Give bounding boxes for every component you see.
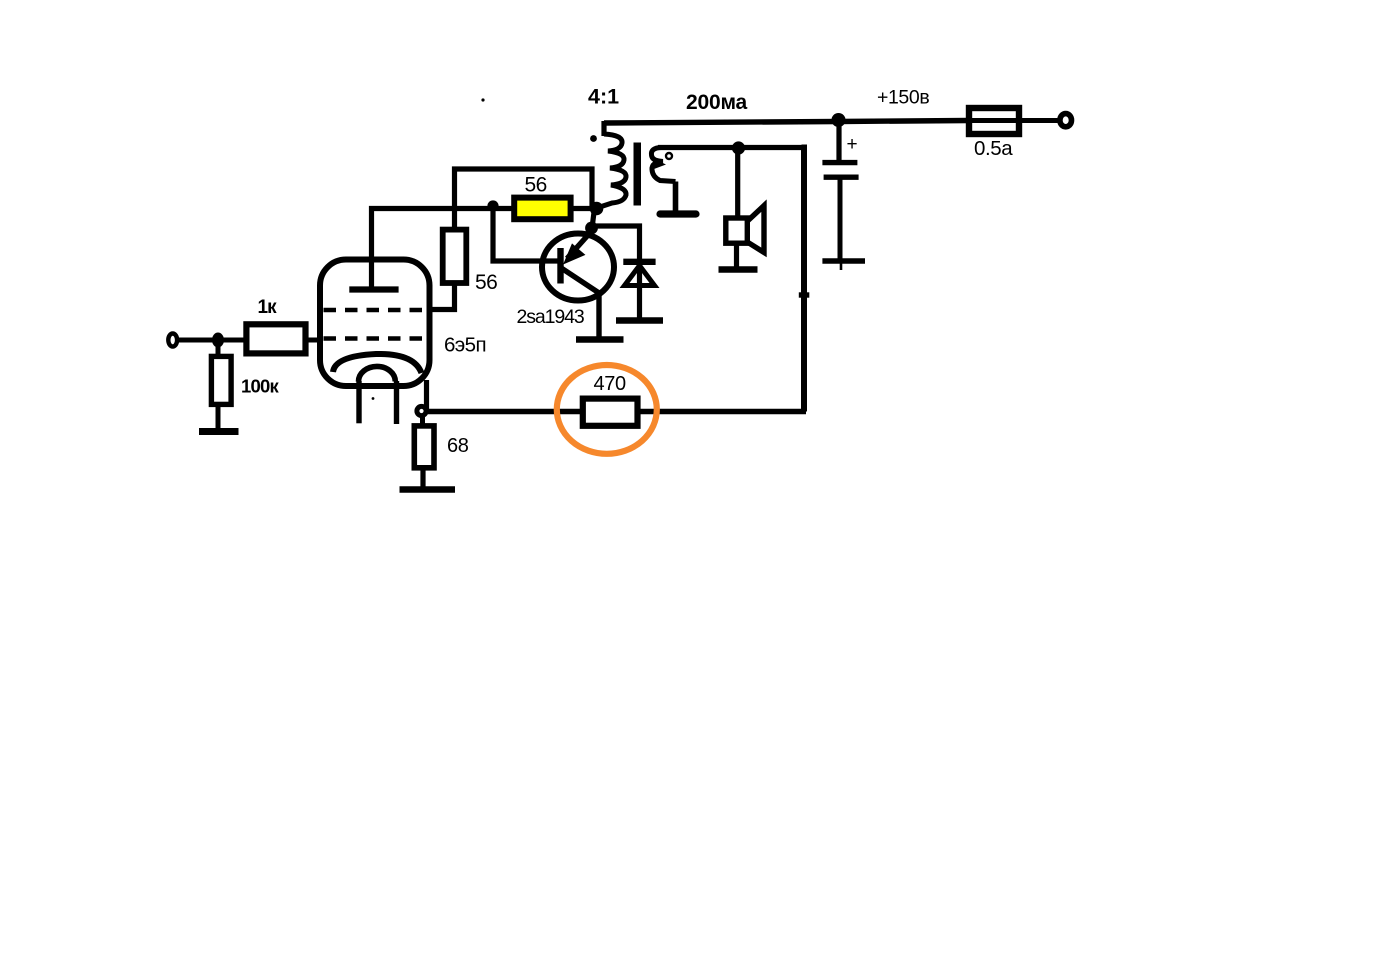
tube screen grid (dashed) (324, 308, 426, 313)
wire capacitor to ground (838, 177, 843, 261)
wire junction to capacitor (836, 121, 841, 161)
diode triangle (625, 266, 655, 286)
ground (below 100k) (199, 428, 239, 435)
value label 100к (241, 376, 279, 397)
tube heater arc (359, 366, 396, 381)
transistor 2sa1943 body (542, 234, 614, 301)
svg-text:4:1: 4:1 (588, 85, 619, 109)
transformer secondary label 4:1 (588, 85, 619, 109)
wire junction down to 100k (216, 340, 221, 357)
tube cathode arc (333, 354, 422, 373)
tube anode plate (349, 286, 398, 292)
wire speaker to ground (734, 243, 739, 267)
wire emitter node to diode (592, 226, 640, 259)
stray ring near secondary (666, 153, 672, 159)
svg-text:6э5п: 6э5п (444, 334, 486, 357)
wire through fuse (966, 118, 1058, 123)
svg-text:+: + (847, 134, 858, 155)
stray mark near primary (590, 135, 597, 142)
svg-text:56: 56 (475, 271, 497, 294)
diode cathode bar (623, 259, 655, 265)
svg-text:+150в: +150в (877, 87, 929, 109)
tube 6э5п envelope (320, 260, 430, 387)
fuse 0.5а (969, 108, 1019, 134)
transistor collector (562, 269, 599, 339)
ground (speaker) (719, 266, 758, 272)
transformer T1 secondary coil (651, 148, 675, 182)
tube label 6э5п (444, 334, 486, 357)
wire junction to 68 (420, 414, 425, 427)
tube control grid (dashed) (324, 336, 426, 341)
stray dot top (481, 98, 484, 101)
wire anode up and right to 56 yellow (372, 209, 515, 291)
node small blob on feedback wire (799, 292, 810, 297)
wire 56 top loop to transformer node (455, 169, 593, 230)
fuse label 0.5а (974, 137, 1013, 160)
transformer T1 core (634, 143, 642, 206)
transformer T1 primary top wire (604, 121, 969, 124)
wire down to speaker (735, 148, 740, 219)
wire 1k to tube grid (306, 338, 324, 343)
wire secondary bottom to ground (673, 182, 679, 213)
stray dot under tube (372, 397, 375, 400)
wire feedback vertical (802, 148, 805, 412)
transistor base bar (557, 248, 563, 284)
wire input to 1k (177, 338, 247, 343)
wire 100k to ground (216, 404, 221, 429)
wire cathode down to junction (424, 380, 429, 409)
value label 56 (yellow resistor) (525, 174, 547, 197)
ground (diode) (616, 317, 663, 323)
node input junction (212, 333, 224, 348)
wire base drop from junction (493, 208, 559, 261)
node cathode junction ring (417, 406, 426, 415)
output terminal (1060, 114, 1072, 127)
capacitor C1 (822, 163, 858, 178)
speaker LS1 (726, 206, 764, 253)
resistor 470 (583, 399, 638, 426)
resistor 56 (vertical) (443, 230, 467, 283)
transformer T1 primary coil (597, 134, 627, 208)
resistor 68 (414, 426, 434, 468)
current label 200ма (686, 91, 747, 114)
transformer T1 primary corner (601, 121, 606, 136)
ground (transistor collector) (576, 336, 624, 343)
svg-text:2sa1943: 2sa1943 (517, 306, 584, 328)
wire 470 to feedback vertical (638, 409, 807, 414)
ground (68) (400, 486, 456, 492)
svg-text:0.5а: 0.5а (974, 137, 1013, 160)
value label 56 (vertical resistor) (475, 271, 497, 294)
tube heater pin left (356, 381, 361, 423)
tube heater pin right (394, 381, 399, 424)
value label 68 (447, 435, 469, 457)
capacitor C1 plus label (847, 134, 858, 155)
node anode junction (487, 200, 498, 211)
diode lead through to ground (637, 265, 642, 318)
wire feedback horizontal left (426, 409, 583, 414)
svg-text:100к: 100к (241, 376, 279, 397)
transistor label 2sa1943 (517, 306, 584, 328)
supply label +150в (877, 87, 929, 109)
wire node to emitter node (592, 209, 595, 229)
wire secondary top (658, 145, 804, 150)
svg-text:200ма: 200ма (686, 91, 747, 114)
node B+ junction (832, 113, 846, 127)
node transformer primary bottom (590, 202, 604, 216)
svg-text:68: 68 (447, 435, 469, 457)
ground (secondary) (660, 210, 696, 217)
node speaker top (732, 141, 745, 154)
resistor 100к (211, 356, 231, 404)
highlight orange circle around 470 (557, 365, 657, 454)
wire tube screen to 56 resistor (429, 284, 455, 310)
value label 1к (258, 297, 278, 318)
ground (capacitor) (822, 261, 865, 270)
value label 470 (594, 373, 626, 395)
svg-text:470: 470 (594, 373, 626, 395)
svg-text:1к: 1к (258, 297, 278, 318)
wire 68 to ground (420, 467, 425, 488)
resistor 56 (yellow) (514, 198, 570, 220)
wire yellow resistor to transformer node (571, 206, 597, 211)
secondary coil cusp (653, 159, 666, 170)
svg-text:56: 56 (525, 174, 547, 197)
resistor 1к (246, 324, 305, 353)
node emitter (585, 222, 598, 235)
input terminal (168, 334, 177, 347)
transistor emitter with arrow (566, 230, 594, 263)
